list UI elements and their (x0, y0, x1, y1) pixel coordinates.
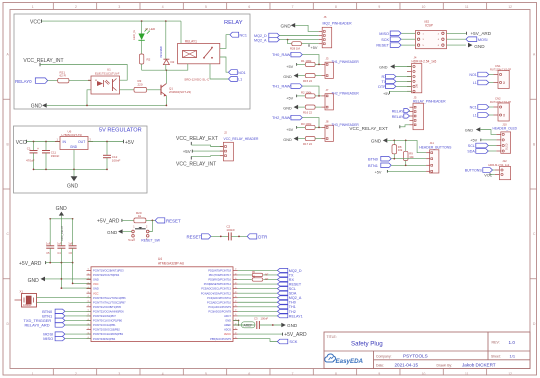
svg-text:EL817S1(C)(TU)-F: EL817S1(C)(TU)-F (95, 71, 120, 75)
svg-text:AVCC: AVCC (224, 332, 231, 336)
svg-text:MQ2_D: MQ2_D (289, 269, 302, 273)
svg-text:PC2|ADC2/PCINT10: PC2|ADC2/PCINT10 (207, 300, 232, 304)
svg-text:PC0|ADC0/PCINT8: PC0|ADC0/PCINT8 (208, 309, 231, 313)
svg-text:100nF: 100nF (226, 228, 235, 232)
svg-text:1uF: 1uF (46, 242, 51, 246)
svg-text:TITLE:: TITLE: (327, 335, 337, 339)
svg-text:220: 220 (138, 82, 143, 86)
svg-text:1uF: 1uF (57, 242, 62, 246)
svg-text:VCC: VCC (30, 19, 41, 25)
svg-text:+5V: +5V (470, 139, 477, 143)
svg-text:VCC_RELAY_INT: VCC_RELAY_INT (176, 162, 216, 168)
svg-text:GND: GND (379, 65, 388, 69)
svg-text:J11: J11 (430, 141, 435, 145)
svg-text:RESET_SW: RESET_SW (141, 238, 160, 242)
svg-text:J12: J12 (502, 159, 507, 163)
svg-text:VCC: VCC (93, 282, 99, 286)
svg-text:PD2|INT0/PCINT18: PD2|INT0/PCINT18 (208, 269, 231, 273)
svg-text:2021-04-15: 2021-04-15 (395, 363, 419, 368)
svg-text:TX: TX (289, 273, 294, 277)
svg-text:HDR-M-2.54_1x6: HDR-M-2.54_1x6 (412, 60, 437, 64)
svg-text:PCINT2/SS/OC1B|PB2: PCINT2/SS/OC1B|PB2 (93, 328, 120, 332)
svg-text:RESET: RESET (289, 282, 302, 286)
svg-text:12: 12 (508, 5, 512, 9)
svg-text:NO1: NO1 (238, 71, 246, 75)
svg-text:GND: GND (93, 278, 99, 282)
svg-text:10k: 10k (398, 148, 403, 152)
svg-text:GND: GND (465, 128, 474, 132)
svg-text:PCINT20/XCK/T0|PD4: PCINT20/XCK/T0|PD4 (93, 273, 120, 277)
svg-text:MQ2_A: MQ2_A (254, 38, 267, 42)
svg-text:PD1|TXD/PCINT17: PD1|TXD/PCINT17 (209, 273, 232, 277)
svg-text:+: + (37, 147, 39, 151)
svg-text:6: 6 (248, 372, 250, 376)
svg-text:8: 8 (335, 5, 337, 9)
svg-text:AREF: AREF (244, 323, 253, 327)
svg-text:SCK: SCK (289, 339, 297, 344)
svg-text:VCC: VCC (16, 140, 27, 146)
svg-text:1k: 1k (138, 214, 142, 218)
svg-text:R2: R2 (147, 58, 151, 62)
svg-text:7: 7 (292, 5, 294, 9)
svg-text:PCINT21/OC0B/T1|PD5: PCINT21/OC0B/T1|PD5 (93, 305, 121, 309)
svg-text:PCINT3/OC2A/MOSI|PB3: PCINT3/OC2A/MOSI|PB3 (93, 332, 123, 336)
svg-text:10: 10 (422, 5, 426, 9)
svg-text:RELAY0: RELAY0 (15, 79, 32, 84)
svg-text:BTN1: BTN1 (368, 163, 378, 168)
svg-text:OUT: OUT (78, 140, 85, 144)
svg-text:C6: C6 (69, 251, 73, 255)
svg-text:9: 9 (378, 372, 380, 376)
svg-text:1: 1 (32, 5, 34, 9)
svg-text:Company:: Company: (376, 354, 392, 358)
svg-text:R28 1M: R28 1M (290, 47, 300, 51)
svg-text:TH0_RAW: TH0_RAW (272, 52, 291, 57)
svg-text:REV:: REV: (492, 340, 500, 344)
svg-text:SDA: SDA (467, 150, 475, 154)
svg-text:GND: GND (283, 106, 292, 110)
svg-text:SCK: SCK (381, 38, 389, 42)
svg-text:+5V: +5V (286, 128, 293, 132)
svg-text:Sheet:: Sheet: (491, 354, 501, 358)
svg-text:L1: L1 (473, 81, 477, 85)
svg-text:BUTTONS: BUTTONS (465, 169, 483, 173)
svg-text:PCINT0/CLKO/ICP1|PB0: PCINT0/CLKO/ICP1|PB0 (93, 319, 123, 323)
svg-text:16MHz: 16MHz (23, 303, 32, 307)
svg-text:NC1: NC1 (240, 33, 247, 37)
svg-text:+5V: +5V (125, 140, 135, 146)
svg-text:L1: L1 (473, 114, 477, 118)
svg-text:C3: C3 (254, 316, 258, 320)
svg-text:Safety Plug: Safety Plug (351, 341, 383, 348)
svg-text:100nF: 100nF (261, 316, 269, 320)
svg-text:AREF: AREF (224, 323, 231, 327)
svg-text:PC6|RESET#/PCINT14: PC6|RESET#/PCINT14 (204, 282, 232, 286)
svg-text:GND: GND (93, 287, 99, 291)
svg-text:EasyEDA: EasyEDA (336, 358, 364, 365)
svg-text:7: 7 (292, 372, 294, 376)
svg-text:ICSP: ICSP (425, 23, 434, 27)
svg-text:GND: GND (107, 230, 118, 235)
svg-text:GND: GND (31, 103, 43, 109)
svg-text:GND: GND (56, 206, 68, 212)
svg-text:VCC_RELAY_EXT: VCC_RELAY_EXT (176, 136, 218, 142)
svg-text:GND: GND (28, 278, 39, 284)
svg-text:PCINT23/AIN1|PD7: PCINT23/AIN1|PD7 (93, 314, 116, 318)
svg-text:ARD_RELAY: ARD_RELAY (60, 225, 64, 241)
svg-text:IN: IN (63, 140, 67, 144)
svg-text:ATMEGA328P-AU: ATMEGA328P-AU (158, 261, 185, 265)
svg-text:GND: GND (70, 145, 78, 149)
svg-text:Jakob DICKERT: Jakob DICKERT (462, 363, 496, 368)
svg-text:RESET: RESET (187, 235, 202, 240)
svg-text:PC3|ADC3/PCINT11: PC3|ADC3/PCINT11 (207, 296, 231, 300)
svg-text:3: 3 (118, 5, 120, 9)
svg-text:GND: GND (67, 184, 79, 190)
svg-text:U4: U4 (158, 257, 162, 261)
svg-text:Drawn By:: Drawn By: (437, 363, 453, 367)
svg-text:R2 100k: R2 100k (301, 90, 312, 94)
svg-text:J2: J2 (224, 131, 227, 135)
svg-text:GND: GND (371, 139, 382, 144)
svg-text:VCC_RELAY_HEADER: VCC_RELAY_HEADER (224, 137, 260, 141)
svg-text:SCL: SCL (289, 287, 296, 291)
svg-text:J6: J6 (324, 15, 327, 19)
svg-text:Date:: Date: (376, 363, 384, 367)
svg-text:MOSI: MOSI (478, 38, 488, 42)
svg-text:4: 4 (162, 372, 164, 376)
svg-text:BTN0: BTN0 (368, 157, 379, 162)
svg-text:PCINT7/XTAL2/TOSC2|PB7: PCINT7/XTAL2/TOSC2|PB7 (93, 300, 126, 304)
svg-text:TH2_RAW: TH2_RAW (272, 115, 291, 120)
svg-text:VCC: VCC (93, 291, 99, 295)
svg-text:1: 1 (32, 372, 34, 376)
svg-text:5: 5 (205, 372, 207, 376)
svg-text:330nF: 330nF (51, 154, 60, 158)
svg-text:PC5|ADC5/SCL/PCINT13: PC5|ADC5/SCL/PCINT13 (201, 287, 231, 291)
svg-text:SCL: SCL (468, 144, 475, 148)
svg-text:6: 6 (248, 5, 250, 9)
svg-text:1x6: 1x6 (416, 83, 419, 88)
svg-text:10: 10 (422, 372, 426, 376)
svg-text:VCC_RELAY_EXT: VCC_RELAY_EXT (349, 126, 388, 131)
svg-text:2N3904(SOT-23): 2N3904(SOT-23) (169, 90, 191, 94)
svg-text:GND: GND (281, 23, 292, 28)
svg-text:+5V: +5V (183, 149, 191, 154)
svg-text:MQ2_PINHEADER: MQ2_PINHEADER (323, 21, 353, 25)
svg-text:MISO: MISO (43, 336, 53, 341)
svg-text:U$2: U$2 (424, 20, 430, 24)
svg-text:11: 11 (465, 5, 469, 9)
svg-text:TH1_RAW: TH1_RAW (272, 84, 291, 89)
svg-text:RELAY_PINHEADER: RELAY_PINHEADER (413, 99, 446, 103)
svg-text:NC1: NC1 (470, 106, 477, 110)
svg-text:MQ2_A: MQ2_A (289, 296, 302, 300)
svg-text:C5: C5 (46, 251, 50, 255)
svg-text:GND: GND (283, 75, 292, 79)
svg-text:RX: RX (289, 278, 295, 282)
svg-text:RELAY0_ARD: RELAY0_ARD (25, 323, 50, 328)
svg-text:+5V_ARD: +5V_ARD (471, 31, 492, 36)
svg-text:470uF: 470uF (26, 159, 35, 163)
svg-text:+5V: +5V (375, 170, 382, 174)
svg-text:R_LED: R_LED (146, 27, 157, 31)
svg-text:GND: GND (283, 138, 292, 142)
svg-text:11: 11 (465, 372, 469, 376)
svg-text:R17 22: R17 22 (303, 142, 312, 146)
svg-text:PCINT19/OC2B/INT1|PD3: PCINT19/OC2B/INT1|PD3 (93, 269, 124, 273)
svg-text:TH2: TH2 (289, 310, 296, 314)
svg-text:SDA: SDA (289, 292, 297, 296)
svg-text:5mm: 5mm (128, 238, 135, 242)
svg-text:GND: GND (474, 44, 485, 49)
svg-text:J8: J8 (326, 120, 329, 124)
svg-text:+5V: +5V (286, 65, 293, 69)
svg-text:12: 12 (508, 372, 512, 376)
svg-text:8: 8 (335, 372, 337, 376)
svg-text:IN4148W: IN4148W (159, 46, 163, 58)
svg-text:C1: C1 (27, 147, 31, 151)
svg-text:VCC_RELAY_INT: VCC_RELAY_INT (23, 58, 63, 64)
svg-text:RELAY1: RELAY1 (185, 39, 197, 43)
svg-text:MISO: MISO (379, 32, 389, 36)
svg-text:L1: L1 (238, 78, 242, 82)
svg-text:RESET: RESET (376, 44, 389, 48)
svg-text:VCC: VCC (484, 173, 492, 177)
svg-text:J3: J3 (326, 57, 329, 61)
svg-text:R3 100k: R3 100k (301, 122, 312, 126)
svg-text:PC1|ADC1/PCINT9: PC1|ADC1/PCINT9 (208, 305, 231, 309)
svg-text:100nF: 100nF (112, 159, 121, 163)
svg-text:ADC7: ADC7 (224, 314, 231, 318)
svg-text:GND: GND (287, 323, 298, 328)
svg-text:RESET: RESET (166, 218, 181, 223)
svg-text:PCINT22/OC0A/AIN0|PD6: PCINT22/OC0A/AIN0|PD6 (93, 309, 124, 313)
svg-text:DTR: DTR (258, 235, 267, 240)
svg-text:+5V: +5V (286, 97, 293, 101)
svg-text:+5V_ARD: +5V_ARD (284, 332, 307, 338)
svg-text:5: 5 (205, 5, 207, 9)
svg-text:R15 22: R15 22 (303, 79, 312, 83)
svg-text:RELAY1: RELAY1 (289, 314, 303, 318)
svg-text:RELAY: RELAY (224, 20, 243, 26)
svg-text:OLED: OLED (506, 143, 509, 150)
svg-text:TH1_PINHEADER: TH1_PINHEADER (332, 60, 360, 64)
svg-text:PB5|SCK/PCINT5: PB5|SCK/PCINT5 (210, 337, 231, 341)
svg-text:PCINT1/OC1A|PB1: PCINT1/OC1A|PB1 (93, 323, 116, 327)
svg-text:3: 3 (118, 372, 120, 376)
svg-text:HEADER_OLED: HEADER_OLED (493, 127, 518, 131)
svg-text:X1: X1 (20, 289, 24, 293)
svg-text:NO1: NO1 (469, 73, 476, 77)
svg-text:PD0|RXD/PCINT16: PD0|RXD/PCINT16 (208, 278, 231, 282)
svg-text:R16 22: R16 22 (303, 111, 312, 115)
svg-text:1uF: 1uF (68, 242, 73, 246)
svg-text:J7: J7 (326, 88, 329, 92)
svg-text:PCINT4/MISO|PB4: PCINT4/MISO|PB4 (93, 337, 116, 341)
svg-text:D2: D2 (171, 60, 175, 64)
svg-text:9: 9 (378, 5, 380, 9)
svg-text:SRD-12VDC-SL-C: SRD-12VDC-SL-C (184, 78, 210, 82)
svg-text:+5V_ARD: +5V_ARD (19, 261, 42, 267)
svg-text:10k: 10k (409, 155, 414, 159)
svg-text:PC4|ADC4/SDA/PCINT12: PC4|ADC4/SDA/PCINT12 (201, 291, 232, 295)
svg-text:L7805CD2T-TR: L7805CD2T-TR (62, 133, 82, 137)
svg-text:PSYTOOLS: PSYTOOLS (403, 354, 428, 359)
svg-text:1/1: 1/1 (510, 354, 516, 359)
svg-text:2: 2 (75, 5, 77, 9)
svg-text:HEADER_BUTTONS: HEADER_BUTTONS (419, 146, 452, 150)
svg-text:GND: GND (225, 319, 231, 323)
svg-text:TH1: TH1 (289, 305, 296, 309)
svg-text:+5V_ARD: +5V_ARD (97, 219, 120, 225)
svg-text:+5V: +5V (311, 46, 318, 50)
svg-text:PCINT6/XTAL1/TOSC1|PB6: PCINT6/XTAL1/TOSC1|PB6 (93, 296, 126, 300)
svg-text:C4: C4 (57, 251, 61, 255)
svg-text:62 R: 62 R (60, 74, 67, 78)
svg-text:2: 2 (75, 372, 77, 376)
svg-text:5V REGULATOR: 5V REGULATOR (99, 127, 142, 133)
svg-text:R1 100k: R1 100k (301, 59, 312, 63)
svg-text:DTR: DTR (378, 85, 386, 89)
svg-text:CN2: CN2 (495, 96, 501, 100)
svg-text:TH2_PINHEADER: TH2_PINHEADER (332, 92, 360, 96)
svg-text:TH0: TH0 (289, 301, 296, 305)
svg-text:1.0: 1.0 (509, 340, 516, 345)
svg-text:CN1: CN1 (495, 64, 501, 68)
svg-text:4: 4 (162, 5, 164, 9)
svg-text:LED_G: LED_G (132, 29, 136, 40)
svg-text:ADC6: ADC6 (224, 328, 231, 332)
